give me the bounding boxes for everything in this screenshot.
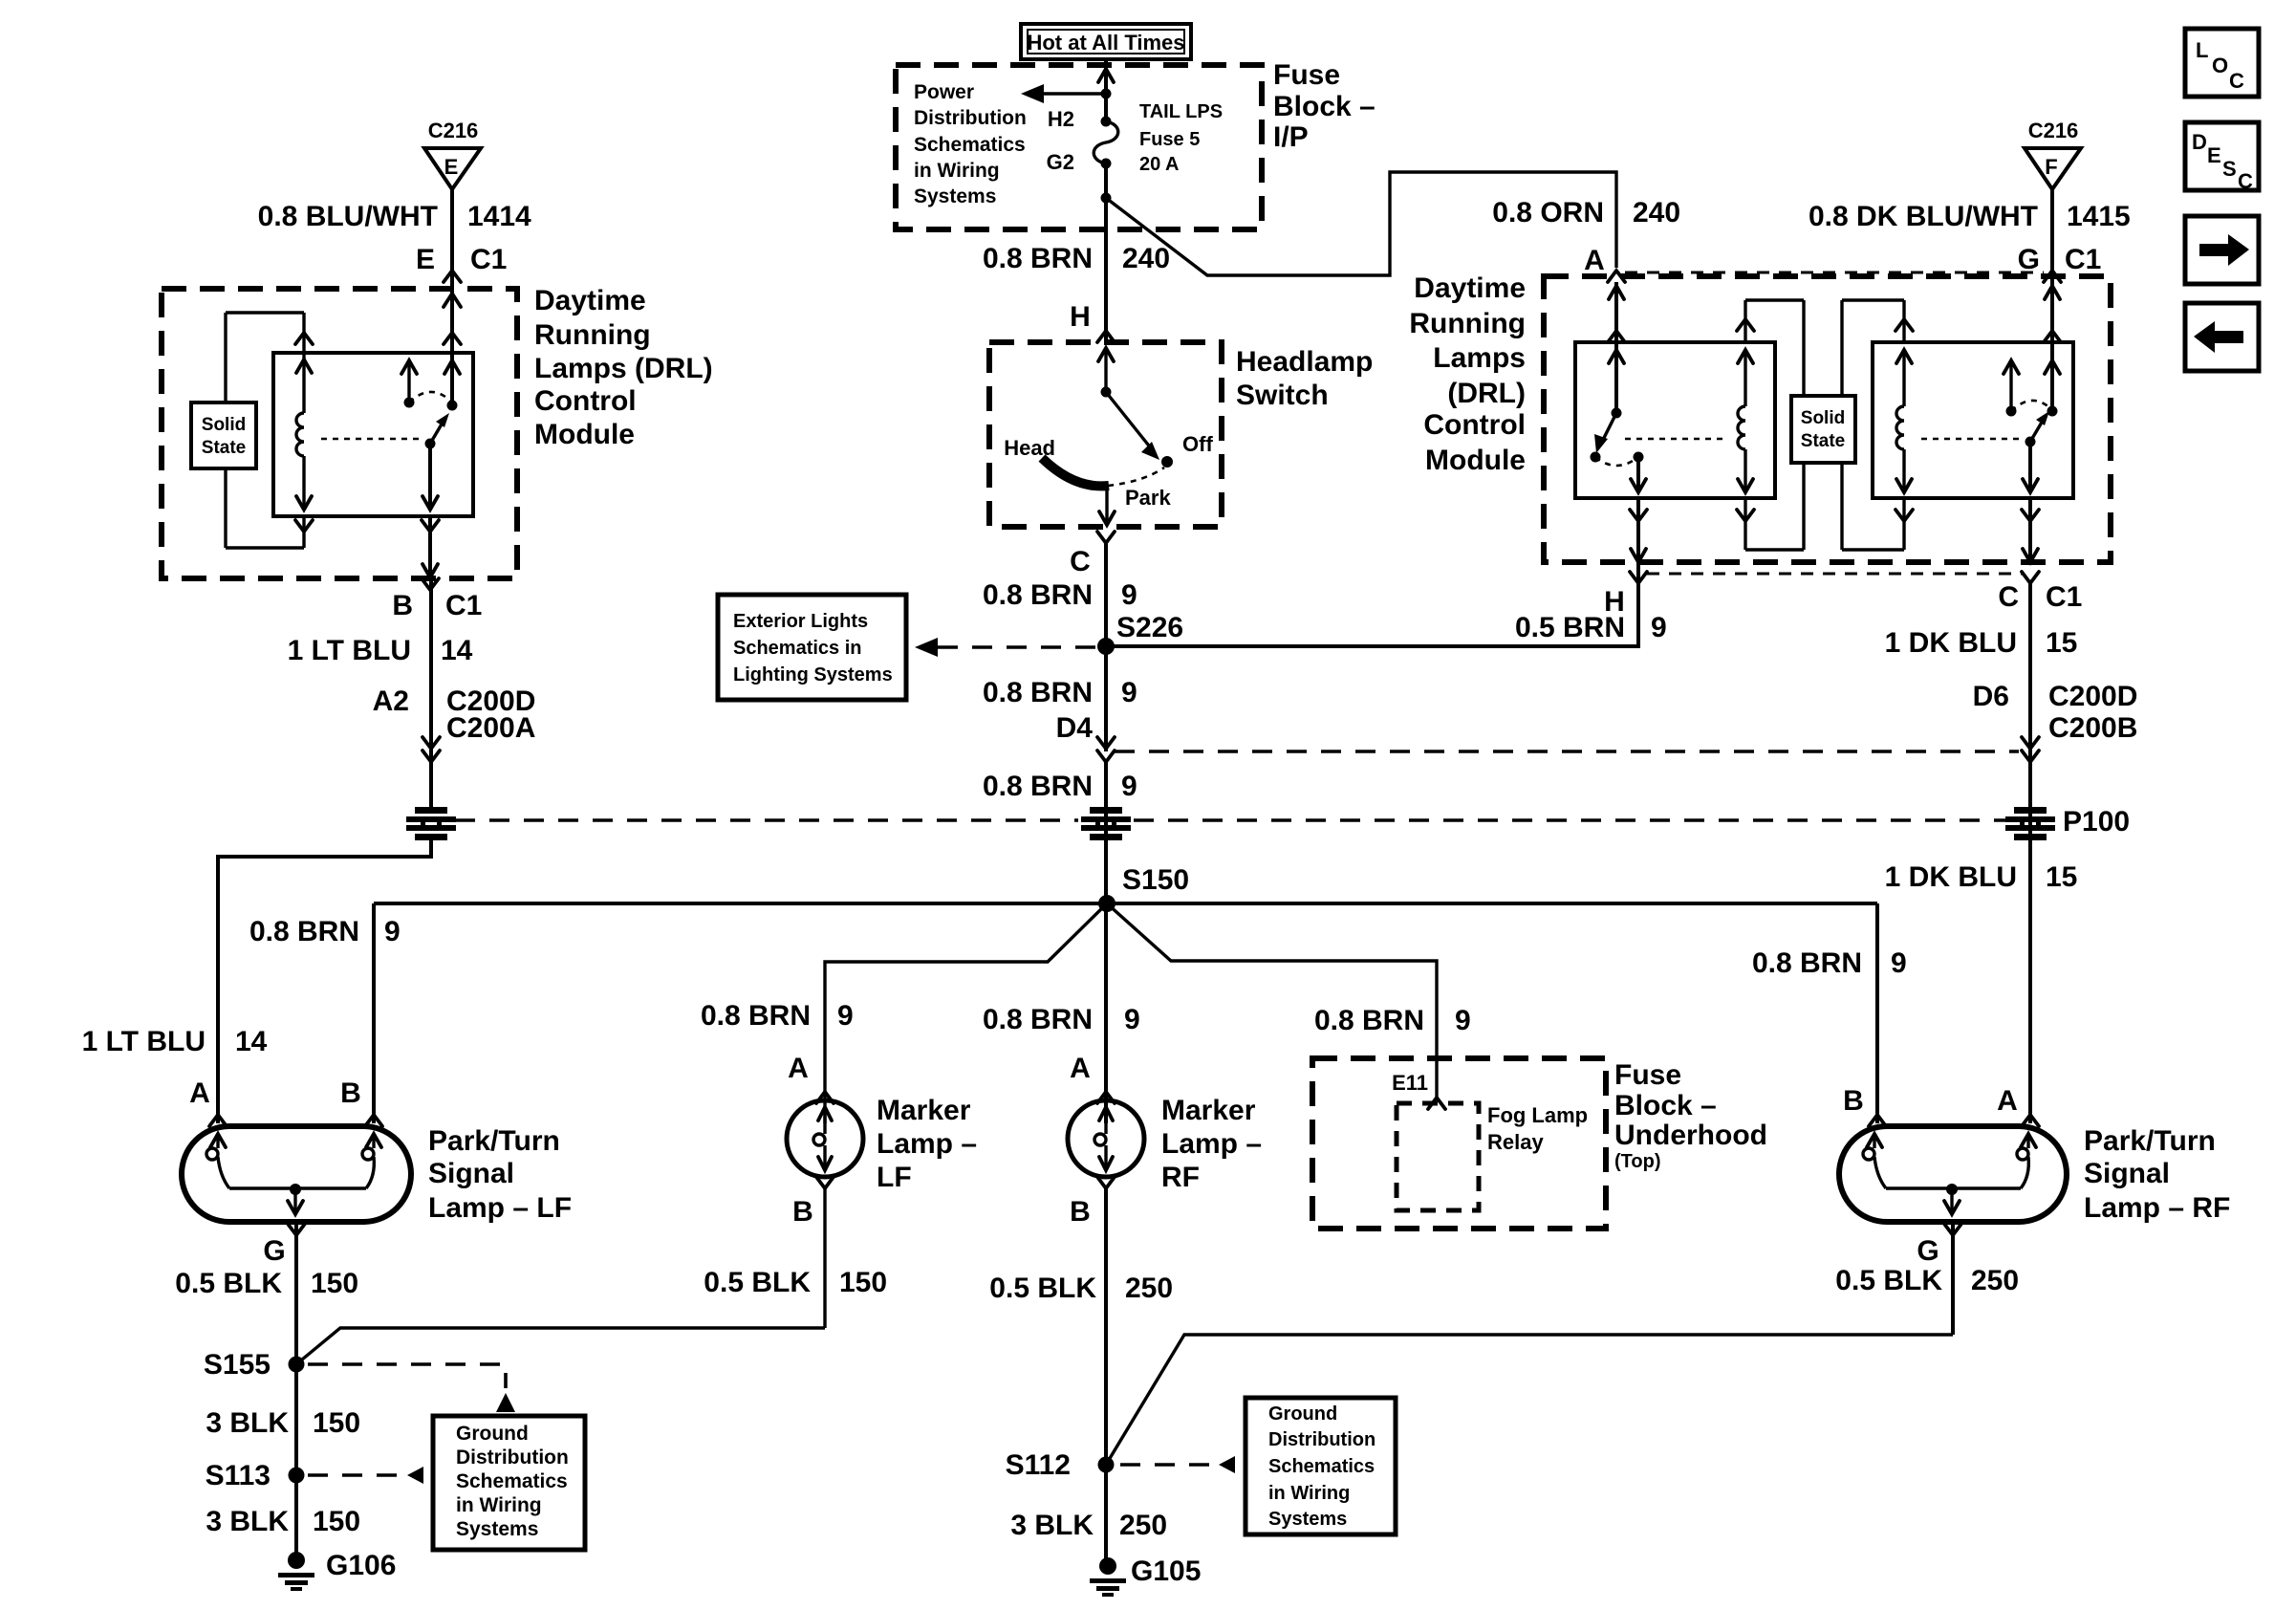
svg-text:E: E <box>2207 143 2221 167</box>
svg-text:1 DK BLU: 1 DK BLU <box>1885 627 2017 659</box>
svg-text:S150: S150 <box>1122 864 1189 896</box>
svg-text:S155: S155 <box>204 1349 271 1381</box>
svg-text:Schematics: Schematics <box>1268 1456 1375 1477</box>
svg-text:C1: C1 <box>2065 244 2101 275</box>
svg-text:1414: 1414 <box>467 201 531 232</box>
svg-text:in Wiring: in Wiring <box>914 160 1000 182</box>
ground wire from lamp LF <box>294 1222 298 1560</box>
svg-text:0.8 BRN: 0.8 BRN <box>701 1000 811 1032</box>
arrowhead into module at E <box>444 294 461 307</box>
svg-text:Module: Module <box>1425 445 1526 476</box>
marker lamp RF body <box>1068 1100 1144 1177</box>
svg-text:E: E <box>416 244 435 275</box>
arrowhead into module at G <box>2045 286 2060 299</box>
svg-text:C1: C1 <box>470 244 507 275</box>
svg-text:Headlamp: Headlamp <box>1236 346 1373 378</box>
svg-text:State: State <box>1801 431 1845 451</box>
wire fuse output to right DRL module pin A <box>1106 172 1616 275</box>
svg-text:D6: D6 <box>1973 681 2009 712</box>
right DRL control module dashed box <box>1544 276 2111 562</box>
svg-text:P100: P100 <box>2063 806 2130 838</box>
relay switch arm with arrow (left module) <box>430 423 443 444</box>
moving contact dot (left relay) <box>1591 452 1601 463</box>
svg-text:C200A: C200A <box>446 712 535 744</box>
switch output wire <box>1105 486 1108 525</box>
Hot at All Times box <box>1021 24 1191 59</box>
connector chevron at switch pin H <box>1097 331 1115 342</box>
svg-text:9: 9 <box>1124 1004 1140 1035</box>
svg-text:Systems: Systems <box>914 185 996 207</box>
svg-text:Schematics in: Schematics in <box>733 638 862 659</box>
svg-text:D: D <box>2192 130 2207 154</box>
headlamp switch dashed box <box>989 342 1222 527</box>
connector C1 dashed tie line (bottom) <box>1647 573 2022 576</box>
svg-text:1 LT BLU: 1 LT BLU <box>82 1026 206 1057</box>
svg-text:Lamp –: Lamp – <box>877 1128 977 1160</box>
svg-text:Block –: Block – <box>1614 1090 1717 1121</box>
svg-text:Lamp – LF: Lamp – LF <box>428 1192 572 1224</box>
svg-text:Park/Turn: Park/Turn <box>428 1125 560 1157</box>
switch dashed arc to Off <box>1108 468 1164 486</box>
svg-text:0.5 BLK: 0.5 BLK <box>1835 1265 1942 1296</box>
relay switch dashed arc (left module) <box>409 392 450 402</box>
leader arrow (S113) <box>407 1467 423 1484</box>
wire S226 to right DRL module pin H <box>1106 562 1638 646</box>
fuse block I/P dashed box <box>896 65 1262 229</box>
connector chevron at pin E11 <box>1428 1098 1445 1109</box>
svg-text:E11: E11 <box>1392 1071 1428 1095</box>
svg-text:in Wiring: in Wiring <box>1268 1483 1350 1504</box>
svg-text:Distribution: Distribution <box>456 1447 569 1469</box>
coil (left relay of right module) <box>1738 350 1753 363</box>
svg-text:1415: 1415 <box>2067 201 2131 232</box>
wire pin B down to C200 connector <box>429 578 433 808</box>
svg-text:Lighting Systems: Lighting Systems <box>733 664 893 685</box>
svg-text:A: A <box>1584 245 1605 276</box>
dashed leader S155 to ground box <box>308 1364 506 1388</box>
relay box (left module) <box>273 353 473 516</box>
svg-text:150: 150 <box>313 1506 360 1537</box>
svg-text:G: G <box>2018 244 2040 275</box>
wire park/turn RF ground into S112 <box>1106 1335 1953 1465</box>
relay actuation dashed link (left module) <box>321 438 421 441</box>
svg-text:C: C <box>1070 546 1091 577</box>
relay actuation dashed link (left relay) <box>1625 438 1728 441</box>
coil chevrons and arrows (left module) <box>295 333 313 344</box>
switch thick position arc <box>1042 458 1109 486</box>
lamp LF filament B <box>366 1134 381 1147</box>
svg-text:Control: Control <box>1423 409 1526 441</box>
svg-text:C200B: C200B <box>2048 712 2137 744</box>
relay switch fixed contact left (left module) <box>407 360 410 402</box>
svg-text:15: 15 <box>2046 627 2077 659</box>
svg-text:0.8 BRN: 0.8 BRN <box>983 579 1093 611</box>
switch Off contact <box>1161 456 1173 468</box>
svg-text:S: S <box>2222 157 2237 181</box>
fixed contact to pin H (left relay) <box>1634 452 1644 463</box>
svg-text:Systems: Systems <box>456 1518 538 1540</box>
solid state box (right module) <box>1791 396 1855 463</box>
connector chevron at pin G <box>2044 271 2061 282</box>
relay box right (right module) <box>1873 342 2073 498</box>
svg-text:G: G <box>263 1235 285 1267</box>
connector C1 dashed tie line (top) <box>1625 272 2044 274</box>
svg-text:9: 9 <box>1891 947 1907 979</box>
marker lamp LF body <box>787 1100 863 1177</box>
svg-text:Block –: Block – <box>1273 91 1375 122</box>
svg-text:250: 250 <box>1125 1273 1173 1304</box>
wire loop solid-state to relay coil (left module) <box>226 311 304 314</box>
svg-text:0.8 BRN: 0.8 BRN <box>1314 1005 1424 1036</box>
relay switch arm with arrow (right relay) <box>2030 421 2043 442</box>
ground G106 <box>288 1552 305 1569</box>
svg-text:Hot at All Times: Hot at All Times <box>1027 31 1184 54</box>
svg-text:9: 9 <box>1121 771 1137 802</box>
fuse TAIL LPS Fuse 5 20 A element <box>1094 121 1118 163</box>
svg-text:B: B <box>792 1196 813 1228</box>
svg-text:3 BLK: 3 BLK <box>206 1407 289 1439</box>
svg-text:Ground: Ground <box>1268 1403 1337 1425</box>
svg-text:0.8 BRN: 0.8 BRN <box>983 1004 1093 1035</box>
DRL control module dashed box (left) <box>162 289 517 578</box>
svg-text:0.8 BRN: 0.8 BRN <box>983 243 1093 274</box>
svg-text:15: 15 <box>2046 861 2077 893</box>
svg-text:S112: S112 <box>1006 1449 1071 1481</box>
svg-text:Fuse 5: Fuse 5 <box>1139 129 1200 150</box>
lamp RF filament B <box>1867 1134 1882 1147</box>
svg-text:Fuse: Fuse <box>1614 1059 1681 1091</box>
svg-text:G2: G2 <box>1047 150 1074 174</box>
C200 in-line connector chevrons (middle) <box>1097 737 1115 749</box>
svg-text:Schematics: Schematics <box>456 1470 568 1492</box>
svg-text:O: O <box>2212 54 2228 77</box>
branch S150 to marker lamp LF <box>825 903 1107 1123</box>
svg-text:Daytime: Daytime <box>1414 272 1526 304</box>
svg-text:0.8 BRN: 0.8 BRN <box>1752 947 1862 979</box>
svg-text:Exterior Lights: Exterior Lights <box>733 611 868 632</box>
grommet P100 <box>2005 807 2055 840</box>
fog lamp relay inner dashed box <box>1397 1103 1479 1210</box>
svg-text:Solid: Solid <box>1801 408 1845 428</box>
leader arrow (S155) <box>496 1393 515 1412</box>
dashed leader S226 to exterior lights box <box>938 645 1097 649</box>
pin G lead / fixed contact right (right relay) <box>2044 331 2061 342</box>
svg-text:3 BLK: 3 BLK <box>1010 1510 1094 1541</box>
svg-text:9: 9 <box>1121 677 1137 708</box>
svg-text:14: 14 <box>441 635 473 666</box>
svg-text:C: C <box>2229 69 2244 93</box>
grommet (middle) <box>1081 807 1131 840</box>
wire S150 to marker lamp RF <box>1104 903 1108 1123</box>
wire pin C down to park/turn RF <box>2028 583 2032 1123</box>
svg-text:Module: Module <box>534 419 635 450</box>
P100 dashed pass-through line <box>455 818 1078 822</box>
svg-text:9: 9 <box>384 916 401 947</box>
connector chevron at switch pin C <box>1097 532 1115 543</box>
marker lamp LF filament <box>818 1107 832 1120</box>
relay switch output wire to pin B (left module) <box>428 444 432 510</box>
svg-text:250: 250 <box>1971 1265 2019 1296</box>
park/turn signal lamp LF body <box>182 1126 411 1222</box>
connector chevron at pin A <box>1608 271 1625 282</box>
lamp RF filament A <box>2021 1134 2036 1147</box>
svg-text:0.5 BLK: 0.5 BLK <box>989 1273 1096 1304</box>
svg-text:H2: H2 <box>1048 107 1074 131</box>
splice S113 <box>289 1468 305 1484</box>
svg-text:240: 240 <box>1633 197 1680 228</box>
svg-text:Lamps (DRL): Lamps (DRL) <box>534 353 713 384</box>
switch input arrow <box>1098 348 1114 361</box>
connector chevron at RF lamp pin G <box>1944 1224 1961 1235</box>
C200 in-line connector chevrons <box>422 737 440 749</box>
svg-text:Lamp – RF: Lamp – RF <box>2084 1192 2230 1224</box>
svg-text:B: B <box>392 590 413 621</box>
svg-text:H: H <box>1070 301 1091 333</box>
svg-text:F: F <box>2045 155 2057 179</box>
dashed leader S113 to ground box <box>308 1473 408 1477</box>
svg-text:0.8 BRN: 0.8 BRN <box>983 677 1093 708</box>
svg-text:L: L <box>2196 38 2208 62</box>
ground wire park/turn RF <box>1951 1222 1955 1335</box>
svg-text:A: A <box>189 1077 210 1109</box>
svg-text:0.8 BLU/WHT: 0.8 BLU/WHT <box>258 201 438 232</box>
svg-text:Lamps: Lamps <box>1433 342 1526 374</box>
svg-text:Signal: Signal <box>428 1158 514 1189</box>
exterior lights schematics box <box>718 595 906 700</box>
connector C216 triangle E <box>424 148 481 189</box>
svg-text:150: 150 <box>313 1407 360 1439</box>
ground G105 <box>1099 1557 1116 1575</box>
C200 dashed connector line <box>1115 750 2019 753</box>
ground wire marker RF to S112 <box>1104 1188 1108 1566</box>
svg-text:D4: D4 <box>1056 712 1094 744</box>
dashed arc (right relay) <box>2011 401 2051 411</box>
lamp RF internal common and ground arrow <box>1886 1186 2021 1189</box>
LOC legend box <box>2185 29 2259 97</box>
fuse block underhood dashed box <box>1312 1058 1606 1229</box>
branch S150 to fog lamp relay <box>1107 903 1437 1099</box>
svg-text:C216: C216 <box>2028 119 2079 142</box>
svg-text:Fuse: Fuse <box>1273 59 1340 91</box>
svg-text:3 BLK: 3 BLK <box>206 1506 289 1537</box>
svg-text:150: 150 <box>311 1268 358 1299</box>
fuse terminal H2 <box>1101 117 1112 127</box>
switch arm to Off <box>1106 392 1152 449</box>
wire S150 branch to lamp pin B <box>372 903 376 1123</box>
svg-text:Park/Turn: Park/Turn <box>2084 1125 2216 1157</box>
marker lamp RF filament <box>1099 1107 1113 1120</box>
dashed arc (left relay) <box>1595 457 1638 466</box>
svg-text:0.8 DK BLU/WHT: 0.8 DK BLU/WHT <box>1809 201 2038 232</box>
svg-text:State: State <box>202 438 246 458</box>
svg-text:C1: C1 <box>2046 581 2082 613</box>
wire grommet to park/turn lamp LF pin A <box>218 838 431 1123</box>
connector C216 triangle F <box>2025 148 2081 189</box>
svg-text:A: A <box>1997 1085 2018 1117</box>
svg-text:Off: Off <box>1182 432 1213 456</box>
svg-text:H: H <box>1604 586 1625 618</box>
svg-text:C216: C216 <box>428 119 479 142</box>
svg-text:0.8 BRN: 0.8 BRN <box>249 916 359 947</box>
left-arrow legend box <box>2185 303 2259 371</box>
svg-text:C: C <box>2238 169 2253 193</box>
relay coil loop wires (right module) <box>1745 298 1804 301</box>
ground distribution box (right) <box>1245 1398 1396 1534</box>
wire C200 to S150 <box>1104 762 1108 903</box>
svg-text:G105: G105 <box>1131 1556 1201 1587</box>
DESC legend box <box>2185 122 2259 190</box>
svg-text:A: A <box>788 1053 809 1084</box>
C200 in-line connector chevrons (right) <box>2022 737 2039 749</box>
svg-text:Solid: Solid <box>202 415 246 435</box>
svg-text:Control: Control <box>534 385 637 417</box>
wire switch C to S226 <box>1104 543 1108 751</box>
svg-text:G106: G106 <box>326 1550 396 1581</box>
svg-text:1 LT BLU: 1 LT BLU <box>288 635 411 666</box>
svg-text:Relay: Relay <box>1487 1130 1544 1154</box>
svg-text:1 DK BLU: 1 DK BLU <box>1885 861 2017 893</box>
relay coil (left module) <box>296 413 304 456</box>
feed wire into fuse block <box>1104 60 1108 121</box>
relay switch arm (left relay) <box>1602 413 1616 442</box>
svg-text:(Top): (Top) <box>1614 1151 1661 1172</box>
svg-text:Running: Running <box>534 319 651 351</box>
svg-text:0.8 ORN: 0.8 ORN <box>1492 197 1604 228</box>
svg-text:250: 250 <box>1119 1510 1167 1541</box>
svg-text:Fog Lamp: Fog Lamp <box>1487 1103 1588 1127</box>
svg-text:Marker: Marker <box>877 1095 971 1126</box>
svg-text:G: G <box>1917 1235 1939 1267</box>
svg-text:9: 9 <box>1455 1005 1471 1036</box>
svg-text:9: 9 <box>1121 579 1137 611</box>
svg-text:Ground: Ground <box>456 1423 529 1445</box>
wire fuse output to headlamp switch <box>1104 163 1108 342</box>
svg-text:C: C <box>1998 581 2019 613</box>
svg-text:E: E <box>444 155 459 179</box>
relay switch fixed contact left (right relay) <box>2009 360 2012 411</box>
grommet (left) <box>406 807 456 840</box>
svg-text:B: B <box>1843 1085 1864 1117</box>
svg-text:240: 240 <box>1122 243 1170 274</box>
svg-text:A2: A2 <box>373 685 409 717</box>
svg-text:Systems: Systems <box>1268 1509 1347 1530</box>
svg-text:9: 9 <box>1651 612 1667 643</box>
svg-text:20 A: 20 A <box>1139 154 1180 175</box>
svg-text:LF: LF <box>877 1162 912 1193</box>
svg-text:Signal: Signal <box>2084 1158 2170 1189</box>
connector chevron at lamp pin B <box>365 1115 382 1126</box>
relay switch output to pin C (right relay) <box>2028 442 2032 492</box>
wire C216-E to DRL module pin E <box>450 189 454 405</box>
svg-text:Head: Head <box>1004 436 1055 460</box>
relay switch fixed contact right / pin E lead (left module) <box>444 333 461 344</box>
svg-text:Lamp –: Lamp – <box>1161 1128 1262 1160</box>
solid state box (left module) <box>224 313 227 402</box>
wire marker LF ground into S155 <box>296 1328 825 1364</box>
splice below fuse <box>1101 193 1112 204</box>
svg-text:B: B <box>1070 1196 1091 1228</box>
svg-text:Running: Running <box>1409 308 1526 339</box>
svg-text:Schematics: Schematics <box>914 134 1026 156</box>
svg-text:S113: S113 <box>206 1460 271 1491</box>
svg-text:Power: Power <box>914 81 974 103</box>
svg-text:150: 150 <box>839 1267 887 1298</box>
svg-text:TAIL LPS: TAIL LPS <box>1139 101 1223 122</box>
svg-text:0.5 BLK: 0.5 BLK <box>175 1268 282 1299</box>
svg-text:Distribution: Distribution <box>1268 1429 1375 1450</box>
lamp LF internal common and ground arrow <box>229 1186 366 1189</box>
connector chevron at pin E <box>444 271 461 282</box>
svg-text:in Wiring: in Wiring <box>456 1494 542 1516</box>
svg-text:Daytime: Daytime <box>534 285 646 316</box>
pin A lead into relay <box>1614 282 1618 413</box>
svg-text:B: B <box>340 1077 361 1109</box>
wire S150 to park/turn RF pin B <box>1875 903 1879 1123</box>
svg-text:Marker: Marker <box>1161 1095 1256 1126</box>
svg-text:Underhood: Underhood <box>1614 1120 1767 1151</box>
svg-text:C200D: C200D <box>2048 681 2137 712</box>
svg-text:0.5 BLK: 0.5 BLK <box>704 1267 811 1298</box>
ground distribution box (left) <box>433 1416 585 1550</box>
dashed leader S112 to ground box <box>1120 1463 1220 1467</box>
connector chevron at lamp pin G <box>288 1224 305 1235</box>
connector chevron at lamp pin A <box>209 1115 227 1126</box>
svg-text:S226: S226 <box>1116 612 1183 643</box>
svg-text:Distribution: Distribution <box>914 107 1027 129</box>
splice S155 <box>289 1357 305 1373</box>
fuse terminal G2 <box>1101 159 1112 169</box>
svg-text:9: 9 <box>837 1000 854 1032</box>
svg-text:A: A <box>1070 1053 1091 1084</box>
splice S112 <box>1098 1457 1115 1473</box>
park/turn signal lamp RF body <box>1839 1126 2067 1222</box>
svg-text:14: 14 <box>235 1026 268 1057</box>
svg-text:0.8 BRN: 0.8 BRN <box>983 771 1093 802</box>
svg-text:Switch: Switch <box>1236 380 1329 411</box>
svg-text:(DRL): (DRL) <box>1447 378 1526 409</box>
svg-text:C1: C1 <box>445 590 482 621</box>
relay box left (right module) <box>1575 342 1775 498</box>
wire C216-F to right DRL module pin G <box>2050 189 2054 411</box>
relay actuation dashed link (right relay) <box>1921 438 2025 441</box>
svg-text:I/P: I/P <box>1273 121 1309 153</box>
coil (right relay of right module) <box>1896 350 1912 363</box>
arrowhead into module at A <box>1609 286 1624 299</box>
ground wire marker LF to S155 <box>823 1188 826 1328</box>
svg-text:RF: RF <box>1161 1162 1200 1193</box>
branch arrow to power distribution <box>1042 92 1106 95</box>
S150 main distribution wire <box>374 902 1877 905</box>
lamp LF filament A <box>210 1134 226 1147</box>
svg-text:Park: Park <box>1125 486 1171 510</box>
right-arrow legend box <box>2185 216 2259 284</box>
